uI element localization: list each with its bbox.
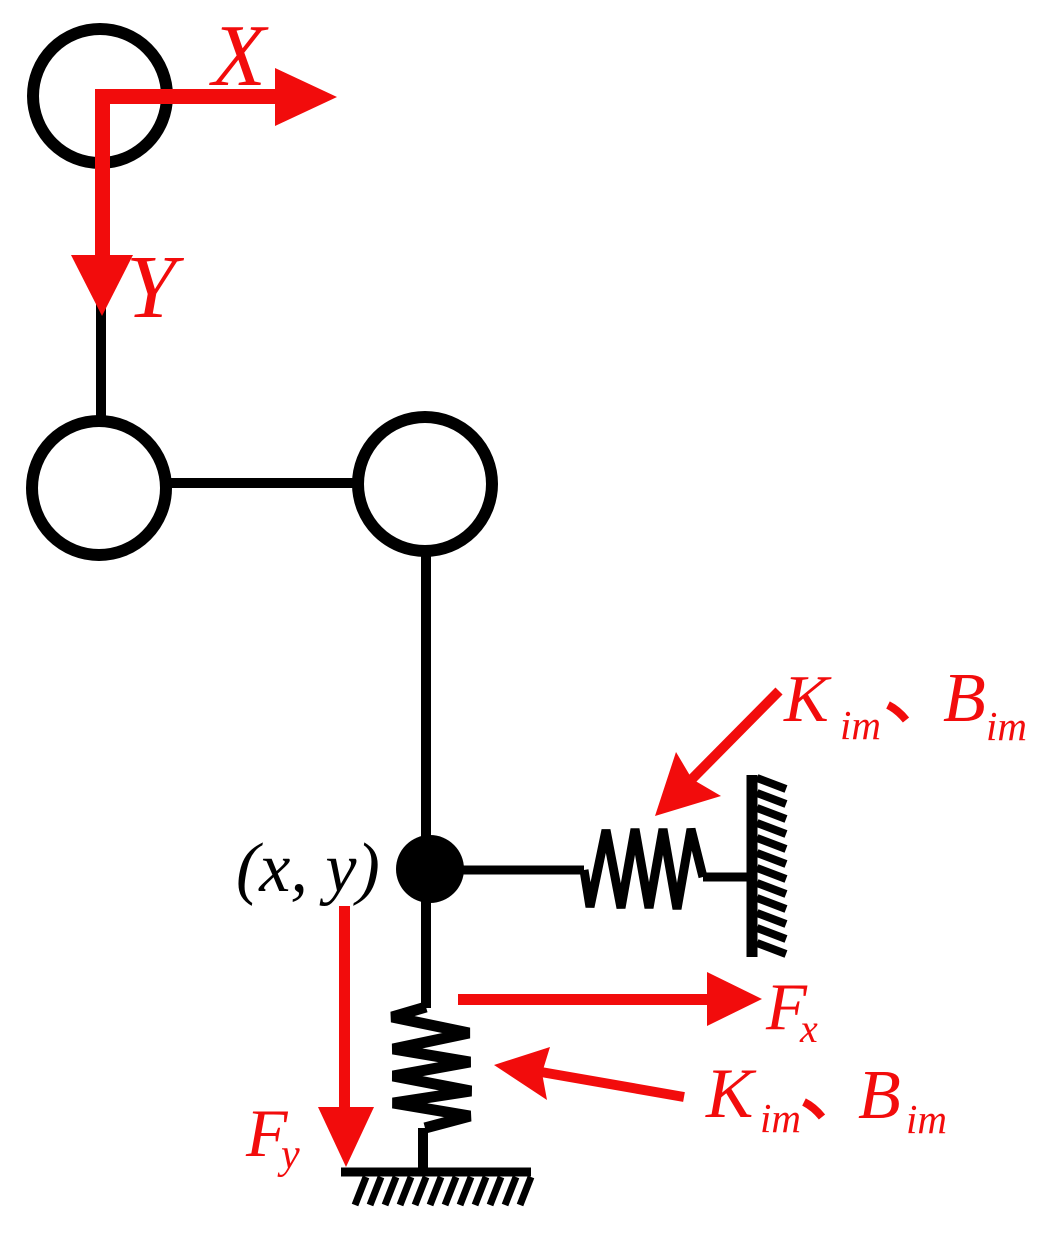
horizontal spring Kim Bim xyxy=(584,829,703,909)
svg-text:im: im xyxy=(906,1096,947,1142)
wire node to vertical spring xyxy=(421,869,431,1008)
svg-text:K: K xyxy=(705,1055,757,1133)
label K im (lower) xyxy=(705,1055,801,1141)
vertical spring Kim Bim xyxy=(392,1007,471,1128)
label Fx xyxy=(765,970,818,1051)
force arrow Fx xyxy=(458,972,762,1026)
right wall xyxy=(747,775,758,957)
ground xyxy=(341,1168,531,1177)
svg-text:im: im xyxy=(840,702,881,748)
svg-text:X: X xyxy=(209,8,269,105)
label B im (lower) xyxy=(858,1057,947,1142)
right wall hatching xyxy=(757,778,786,954)
ground hatching xyxy=(355,1177,531,1205)
svg-text:y: y xyxy=(277,1132,300,1178)
svg-text:B: B xyxy=(943,660,986,737)
label K im (upper) xyxy=(783,662,881,748)
joint J2 circle xyxy=(32,421,166,555)
svg-text:im: im xyxy=(986,703,1027,749)
label B im (upper) xyxy=(943,660,1027,749)
joint J3 circle xyxy=(358,417,492,551)
node (x,y) end-effector dot xyxy=(396,835,464,903)
Y axis arrow xyxy=(71,92,133,316)
svg-text:x: x xyxy=(799,1006,818,1051)
wire vertical spring to ground xyxy=(418,1128,428,1172)
svg-text:im: im xyxy=(760,1095,801,1141)
X axis arrow xyxy=(95,68,337,126)
wire link joint2 to joint3 xyxy=(99,478,425,488)
wire link joint1 to joint2 xyxy=(96,96,106,417)
ideographic comma (lower) xyxy=(804,1102,822,1117)
joint J1 base circle xyxy=(33,29,167,163)
force arrow Fy xyxy=(318,906,374,1167)
wire link joint3 to node (x,y) xyxy=(421,484,431,870)
svg-text:Y: Y xyxy=(126,238,185,337)
arrow pointer to horizontal spring xyxy=(655,691,779,816)
arrow pointer to vertical spring xyxy=(494,1047,684,1100)
wire horizontal spring to wall xyxy=(703,873,752,882)
ideographic comma (upper) xyxy=(888,705,906,720)
svg-text:K: K xyxy=(783,662,832,736)
svg-text:(x, y): (x, y) xyxy=(236,830,380,907)
wire node to horizontal spring xyxy=(430,866,584,875)
svg-text:B: B xyxy=(858,1057,901,1134)
label Fy xyxy=(245,1095,300,1178)
